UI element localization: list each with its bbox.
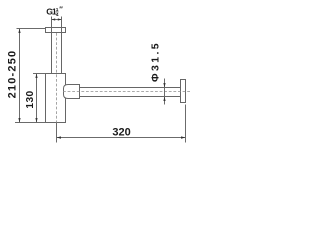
wall flange	[181, 80, 186, 103]
G dim left arrow	[52, 18, 56, 20]
inlet pipe left edge	[51, 17, 53, 74]
trap body	[46, 74, 66, 123]
320 left arrow	[57, 136, 62, 138]
phi dimension line	[164, 79, 166, 105]
horizontal centerline	[63, 91, 190, 93]
320 dimension line	[57, 137, 186, 139]
svg-text:″: ″	[59, 4, 63, 13]
svg-text:320: 320	[112, 126, 130, 138]
vertical centerline	[56, 33, 58, 123]
210-250 top extension line	[17, 28, 46, 30]
outlet nut	[64, 85, 80, 99]
horizontal pipe top line	[80, 87, 181, 89]
210-250 dimension line	[19, 29, 21, 123]
320 right arrow	[181, 136, 186, 138]
bottom extension line	[15, 122, 46, 124]
320 right extension line	[185, 105, 187, 143]
130 dimension line	[36, 74, 38, 123]
210-250 top arrow	[18, 29, 20, 34]
inlet pipe right edge	[61, 17, 63, 74]
130 bottom arrow	[35, 118, 37, 123]
svg-text:Φ31.5: Φ31.5	[150, 41, 162, 82]
svg-text:130: 130	[25, 90, 36, 108]
210-250 bottom arrow	[18, 118, 20, 123]
G dimension line	[52, 19, 62, 21]
130 top arrow	[35, 74, 37, 79]
inlet flange nut	[46, 28, 66, 33]
130 top extension line	[33, 73, 46, 75]
G dim right arrow	[58, 18, 62, 20]
horizontal pipe bottom line	[80, 96, 181, 98]
svg-text:210-250: 210-250	[7, 50, 19, 99]
phi bottom arrow	[163, 97, 165, 102]
320 left extension line	[56, 123, 58, 143]
phi top arrow	[163, 83, 165, 88]
